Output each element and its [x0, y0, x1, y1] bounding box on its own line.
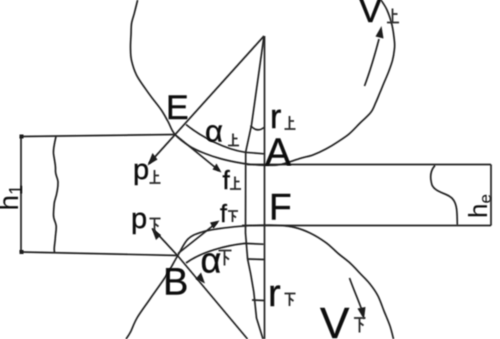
line O-top to E with pressure arrow p-top	[149, 36, 264, 164]
subscript xia for V-bottom	[354, 318, 366, 333]
entry strip bottom edge	[21, 252, 179, 256]
exit strip top edge	[247, 164, 491, 166]
angle arc alpha-top marker	[186, 125, 264, 154]
roll rotation arrow bottom	[350, 278, 362, 309]
roll rotation arrow top	[365, 39, 380, 86]
svg-text:E: E	[166, 89, 189, 127]
svg-text:f: f	[223, 165, 231, 195]
subscript shang for p-top	[150, 170, 161, 183]
line O-bottom to B with pressure arrow p-bottom	[153, 229, 248, 339]
tick on radius line bottom 2	[252, 299, 264, 302]
angle arc alpha-bottom marker	[186, 243, 264, 263]
arrowhead p-bottom	[152, 228, 162, 240]
roll circle top	[130, 0, 394, 165]
subscript xia for f-bottom	[228, 211, 238, 222]
svg-text:h1: h1	[0, 185, 26, 211]
arrowhead f-top	[213, 164, 222, 173]
roll circle bottom	[126, 225, 394, 339]
svg-text:V: V	[320, 299, 350, 339]
svg-text:p: p	[131, 203, 147, 235]
svg-text:r: r	[270, 98, 281, 136]
entry strip top edge	[21, 135, 175, 137]
svg-text:he: he	[463, 194, 495, 218]
arrowhead p-top	[148, 153, 158, 166]
subscript xia for p-bottom	[150, 219, 161, 233]
entry strip wavy break line	[53, 137, 58, 253]
svg-text:r: r	[268, 273, 281, 315]
subscript shang for alpha-top	[228, 134, 239, 146]
arrowhead V-bottom rotation	[358, 307, 366, 320]
exit strip bottom edge	[242, 225, 491, 227]
radius line r-top and r-bottom connector	[246, 36, 265, 339]
subscript shang for V-top	[387, 9, 399, 23]
rotated label h1 left	[0, 185, 495, 218]
entry strip left edge	[20, 137, 22, 253]
svg-text:f: f	[220, 200, 227, 228]
subscript xia for r-bottom	[285, 294, 296, 307]
corner dot entry strip top-left	[20, 135, 24, 139]
corner dot entry strip bottom-left	[20, 250, 24, 254]
svg-text:F: F	[269, 187, 292, 228]
friction arrow f-top from E	[176, 135, 220, 171]
exit strip right edge	[490, 165, 492, 226]
svg-text:A: A	[265, 132, 291, 175]
center line O-top to O-bottom	[264, 36, 266, 339]
friction arrow f-bottom from B	[178, 223, 217, 254]
exit strip wavy break line	[431, 166, 458, 225]
arrowhead on B-line below B	[196, 273, 206, 284]
svg-text:B: B	[163, 262, 188, 304]
arrowhead V-top rotation	[376, 26, 384, 39]
svg-text:α: α	[201, 240, 222, 281]
arrowhead f-bottom	[210, 221, 220, 230]
svg-text:V: V	[358, 0, 383, 30]
svg-text:p: p	[133, 154, 149, 186]
tick on radius line bottom 1	[248, 258, 265, 261]
svg-text:α: α	[205, 114, 223, 149]
subscript shang for r-top	[285, 116, 296, 129]
subscript xia for alpha-bottom	[219, 251, 232, 266]
small angle arc near O-top	[251, 126, 265, 130]
subscript shang for f-top	[230, 177, 241, 190]
